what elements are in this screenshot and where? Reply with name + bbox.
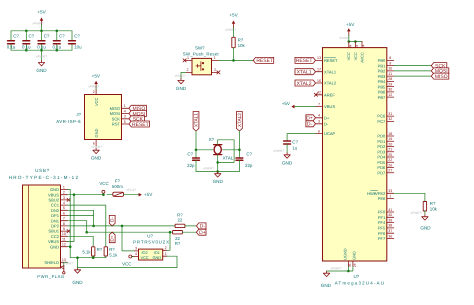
connector J1 AVR-ISP-6 body	[56, 95, 121, 140]
junction pin12 gnd	[69, 245, 72, 248]
pin 28 PB4 (MCU)	[378, 77, 394, 84]
ground (USB area)	[62, 262, 83, 285]
wire gnd bus down	[77, 258, 79, 268]
svg-text:R?: R?	[97, 247, 103, 252]
pin 19 PD1 (MCU)	[377, 137, 393, 144]
wire ESD gnd route	[78, 256, 178, 267]
wire GND pin12	[68, 246, 71, 248]
wire +5V to R1	[233, 28, 235, 38]
pin 11 VBUS (USB)	[48, 237, 68, 244]
svg-text:500m: 500m	[112, 184, 123, 189]
svg-text:11: 11	[62, 237, 66, 241]
wire HWB to R6	[394, 193, 425, 201]
pin 42 AREF (MCU, unconnected)	[314, 91, 335, 98]
svg-text:41: 41	[388, 208, 392, 212]
svg-text:37: 37	[388, 229, 392, 233]
pin 2 (switch, right, unconnected)	[212, 68, 221, 74]
svg-text:R?: R?	[430, 201, 436, 206]
svg-text:C?: C?	[13, 34, 19, 39]
pin 44 AVCC (MCU top)	[359, 42, 365, 63]
wire SCK (MCU)	[394, 65, 432, 67]
svg-text:1: 1	[165, 252, 167, 256]
pin 3 SBU2 (USB)	[48, 196, 67, 203]
switch SW1 SW_Push_Reset body	[183, 45, 220, 74]
pin 6 DP1 (USB)	[51, 211, 67, 218]
svg-text:1: 1	[389, 194, 391, 198]
junction VBUS branch	[73, 193, 76, 196]
pin 6 GND (ISP)	[93, 129, 99, 146]
svg-text:42: 42	[317, 91, 321, 95]
wire reset row	[219, 59, 254, 61]
svg-text:MISO: MISO	[435, 74, 448, 80]
pin 25 PD4 (MCU)	[377, 153, 393, 160]
pin 5 DN2 (USB)	[51, 206, 68, 213]
wire ESD IO1 drop	[169, 232, 171, 247]
pin 29 PB5 (MCU)	[378, 82, 394, 89]
ground (HWB)	[411, 211, 432, 231]
svg-text:PD4: PD4	[377, 155, 386, 160]
svg-text:30: 30	[388, 88, 392, 92]
svg-text:XTAL1: XTAL1	[194, 113, 199, 127]
global label MISO (ISP)	[129, 105, 147, 112]
wire ESD pin2 up	[167, 248, 170, 251]
pin 1 GND (USB)	[50, 185, 68, 192]
wire cap rail to GND	[41, 50, 43, 60]
svg-text:PD1: PD1	[377, 139, 386, 144]
junction crystal gnd	[216, 170, 219, 173]
svg-text:XTAL2: XTAL2	[324, 81, 337, 86]
svg-text:29: 29	[388, 82, 392, 86]
wire VBUS pin11 up	[68, 195, 75, 242]
global label D- (MCU)	[306, 121, 316, 128]
wire gnd bus	[70, 256, 106, 258]
pin 7 DN1 (USB)	[51, 217, 68, 224]
svg-text:VCC: VCC	[140, 255, 148, 260]
svg-text:3: 3	[63, 196, 65, 200]
svg-text:+5V: +5V	[282, 101, 291, 106]
svg-text:1: 1	[124, 104, 126, 108]
pin 33 HWB/PE2 (MCU)	[367, 189, 394, 196]
svg-text:SW?: SW?	[195, 45, 205, 50]
capacitor C2 0.1u	[22, 31, 35, 50]
pin 11 PB3 (MCU)	[378, 72, 394, 79]
pin 30 PB6 (MCU)	[378, 88, 394, 95]
svg-text:GND: GND	[152, 255, 161, 260]
pin 4 MOSI (ISP)	[110, 109, 129, 116]
svg-text:+5V: +5V	[346, 22, 355, 27]
pin 2 VCC (ISP)	[93, 90, 99, 107]
svg-text:#PWR?: #PWR?	[88, 85, 99, 89]
svg-text:D-: D-	[324, 121, 329, 126]
junction ESD IO1 tap	[169, 231, 172, 234]
svg-text:GND: GND	[282, 160, 293, 165]
svg-text:#PWR?: #PWR?	[175, 74, 186, 78]
svg-text:3: 3	[135, 247, 137, 251]
svg-text:8: 8	[63, 222, 65, 226]
svg-text:PF6: PF6	[378, 231, 386, 236]
pin 6 UCAP (MCU)	[316, 129, 336, 136]
global label D+ (to MCU)	[196, 229, 206, 236]
svg-text:20: 20	[388, 142, 392, 146]
pin 41 PF0 (MCU)	[378, 208, 394, 215]
pin 38 PF5 (MCU)	[378, 224, 394, 231]
global label MOSI (ISP)	[129, 111, 147, 118]
svg-text:D+: D+	[110, 235, 115, 241]
resistor R4 22 (D-)	[175, 213, 185, 228]
wire XTAL1 to crystal	[196, 149, 213, 151]
pin 37 PF6 (MCU)	[378, 229, 394, 236]
svg-text:C?: C?	[29, 34, 35, 39]
svg-text:2: 2	[214, 68, 216, 72]
svg-text:22: 22	[388, 158, 392, 162]
svg-text:PD5: PD5	[377, 160, 386, 165]
wire SHIELD to PWR_FLAG	[64, 262, 68, 267]
svg-text:#PWR?: #PWR?	[33, 22, 44, 26]
pin 3 IO2 (ESD)	[135, 247, 139, 251]
svg-text:PB2: PB2	[378, 69, 386, 74]
svg-text:PD3: PD3	[377, 149, 386, 154]
connector USB1 HRO-TYPE-C-31-M-12 body	[9, 168, 80, 268]
svg-text:1: 1	[187, 56, 189, 60]
unconnected SBU1	[67, 230, 70, 233]
global label RESET (ISP)	[129, 121, 150, 128]
svg-text:C?: C?	[74, 34, 80, 39]
resistor R3 5.1k (CC1)	[104, 247, 118, 258]
resistor R5 22 (D+)	[173, 231, 183, 247]
pin 2 VBUS (USB)	[48, 191, 68, 198]
wire D+ row	[87, 231, 173, 233]
wire CC2 to R2	[68, 236, 94, 247]
pin 2 (switch, left)	[186, 68, 192, 72]
svg-text:PWR_FLAG: PWR_FLAG	[37, 274, 64, 279]
pin 13 SHIELD (USB)	[44, 258, 67, 265]
svg-text:5.1k: 5.1k	[82, 249, 91, 254]
wire R1 to reset net	[233, 48, 235, 61]
wire UCAP to C8	[287, 134, 315, 141]
wire XTAL1 down	[195, 131, 197, 150]
wire cap bottom rail	[11, 49, 72, 51]
junction R2 gnd	[92, 256, 95, 259]
svg-text:10k: 10k	[238, 43, 246, 48]
svg-text:#FLG?: #FLG?	[126, 188, 136, 192]
svg-text:38: 38	[388, 224, 392, 228]
svg-text:9: 9	[389, 61, 391, 65]
crystal Y1 XTAL	[209, 137, 234, 161]
svg-text:PF1: PF1	[378, 215, 386, 220]
svg-text:XTAL1: XTAL1	[324, 69, 337, 74]
wire DP1 to D- row	[68, 216, 94, 226]
svg-text:GND: GND	[321, 283, 332, 288]
svg-text:GND: GND	[72, 280, 83, 285]
svg-text:PD6: PD6	[377, 165, 386, 170]
svg-text:36: 36	[388, 234, 392, 238]
svg-text:PD7: PD7	[377, 170, 386, 175]
power +5V (MCU VCC)	[339, 22, 355, 40]
global label MISO (MCU)	[431, 73, 449, 80]
global label RESET (switch)	[253, 57, 274, 64]
power +5V (reset pullup)	[225, 13, 239, 33]
svg-text:PE6: PE6	[378, 196, 386, 201]
pin 9 PB1 (MCU)	[378, 61, 394, 68]
svg-text:D-: D-	[307, 122, 313, 128]
svg-text:24: 24	[355, 44, 359, 48]
svg-text:5.1k: 5.1k	[109, 252, 118, 257]
pin 1 (switch, left, unconnected)	[183, 56, 192, 62]
wire MOSI (MCU)	[394, 70, 432, 72]
junction MCU gnd	[347, 270, 350, 273]
svg-text:12: 12	[62, 243, 66, 247]
power +5V (after fuse)	[126, 188, 153, 197]
svg-text:AVCC: AVCC	[359, 52, 364, 63]
svg-text:C?: C?	[187, 151, 193, 156]
power VCC (fuse)	[99, 181, 108, 194]
svg-text:#PWR?: #PWR?	[225, 28, 236, 32]
svg-text:PB0: PB0	[378, 58, 386, 63]
svg-text:#PWR?: #PWR?	[273, 149, 284, 153]
global label D+ (vertical up)	[109, 232, 115, 243]
pin 5 RST (ISP)	[112, 120, 129, 127]
svg-text:PB6: PB6	[378, 90, 386, 95]
svg-text:MOSI: MOSI	[110, 111, 120, 116]
pin 8 DP2 (USB)	[51, 222, 67, 229]
junction XTAL2 node	[238, 149, 241, 152]
svg-text:10u: 10u	[74, 45, 82, 50]
pin 16 XTAL2 (MCU)	[316, 79, 337, 86]
svg-text:PC6: PC6	[377, 114, 386, 119]
svg-text:2: 2	[165, 246, 167, 250]
svg-text:2: 2	[63, 191, 65, 195]
svg-text:R?: R?	[175, 241, 181, 246]
pin 8 PB0 (MCU)	[378, 56, 394, 63]
svg-text:+5V: +5V	[144, 192, 153, 197]
svg-text:PF5: PF5	[378, 226, 386, 231]
wire GND pin1 down	[68, 190, 71, 258]
ground (cap bank)	[36, 55, 47, 74]
wire switch pin2 to GND	[181, 72, 186, 78]
pin 12 GND (USB)	[50, 243, 68, 250]
svg-text:XTAL2: XTAL2	[297, 81, 312, 87]
svg-text:PF4: PF4	[378, 220, 386, 225]
wire cap top rail	[11, 30, 72, 32]
junction DP1 joins D-	[92, 225, 95, 228]
svg-text:6: 6	[318, 129, 320, 133]
svg-text:0.1u: 0.1u	[53, 45, 62, 50]
svg-text:39: 39	[388, 218, 392, 222]
power +5V (cap bank)	[33, 9, 47, 29]
svg-text:D-: D-	[110, 217, 115, 222]
svg-text:13: 13	[317, 56, 321, 60]
svg-text:5: 5	[63, 206, 65, 210]
pin 35 UGND (MCU bottom)	[343, 248, 353, 267]
capacitor C1 0.1u	[7, 31, 20, 50]
svg-text:+5V: +5V	[92, 73, 101, 78]
wire VBUS pin2 row	[68, 194, 104, 196]
svg-text:RESET: RESET	[296, 58, 313, 64]
pin 7 VBUS (MCU)	[316, 102, 336, 109]
svg-text:HRO-TYPE-C-31-M-12: HRO-TYPE-C-31-M-12	[9, 175, 80, 180]
wire CC1 to R3	[68, 205, 106, 247]
svg-text:1u: 1u	[292, 146, 297, 151]
svg-text:#PWR?: #PWR?	[36, 55, 47, 59]
svg-text:18: 18	[388, 132, 392, 136]
svg-text:GND: GND	[351, 251, 356, 260]
svg-text:4: 4	[135, 252, 137, 256]
svg-text:34: 34	[348, 44, 352, 48]
ground (ISP)	[91, 145, 102, 160]
svg-text:RESET: RESET	[324, 58, 338, 63]
svg-text:40: 40	[388, 213, 392, 217]
svg-text:GND: GND	[176, 86, 187, 91]
wire R4 to D- label	[185, 225, 197, 227]
svg-text:10: 10	[62, 232, 66, 236]
svg-text:PRTR5V0U2X: PRTR5V0U2X	[133, 239, 170, 244]
resistor R6 10k (HWB)	[423, 201, 437, 212]
junction ESD IO2 tap	[121, 225, 124, 228]
unconnected SBU2	[67, 198, 70, 201]
svg-text:19: 19	[388, 137, 392, 141]
svg-text:U?: U?	[354, 274, 360, 279]
svg-text:U?: U?	[147, 234, 153, 239]
svg-text:21: 21	[388, 148, 392, 152]
svg-text:4: 4	[63, 201, 65, 205]
pin 1 PE6 (MCU)	[378, 194, 394, 201]
svg-text:VCC: VCC	[122, 261, 131, 266]
wire +5V to VCC bar	[348, 35, 350, 41]
svg-text:GND: GND	[50, 244, 59, 249]
wire +5V to ISP VCC pin	[95, 88, 97, 90]
pin 1 (switch, right)	[212, 56, 219, 60]
global label XTAL2 (MCU)	[295, 80, 316, 87]
svg-text:0.1u: 0.1u	[7, 45, 16, 50]
pin 21 PD3 (MCU)	[377, 148, 393, 155]
svg-text:RESET: RESET	[256, 58, 273, 64]
svg-text:C?: C?	[44, 34, 50, 39]
svg-text:#PWR?: #PWR?	[62, 262, 73, 266]
global label D- (to MCU)	[196, 223, 206, 230]
global label XTAL1 (crystal)	[193, 112, 199, 132]
junction VCC stem	[102, 193, 105, 196]
junction DN1 joins D+	[85, 231, 88, 234]
svg-text:+5V: +5V	[37, 9, 46, 14]
wire MCU gnd	[327, 267, 353, 272]
pin 32 PC7 (MCU)	[377, 117, 393, 124]
svg-text:ATmega32U4-AU: ATmega32U4-AU	[335, 280, 386, 285]
svg-text:VCC: VCC	[99, 181, 108, 186]
svg-text:R?: R?	[238, 37, 244, 42]
svg-text:#PWR?: #PWR?	[91, 145, 102, 149]
svg-text:HWB/PE2: HWB/PE2	[367, 191, 386, 196]
wire DN2 to D- row	[68, 210, 94, 215]
svg-text:VCC: VCC	[94, 97, 99, 106]
svg-text:PD0: PD0	[377, 134, 386, 139]
svg-text:PF0: PF0	[378, 210, 386, 215]
ground (switch)	[175, 74, 187, 91]
power flag PWR_FLAG (shield)	[37, 266, 65, 279]
pin 40 PF1 (MCU)	[378, 213, 394, 220]
junction gnd bus	[76, 256, 79, 259]
resistor R1 10k (reset pullup)	[232, 37, 246, 48]
svg-text:27: 27	[388, 169, 392, 173]
global label D+ (MCU)	[306, 115, 316, 122]
capacitor C4 0.1u	[53, 31, 66, 50]
wire crystal gnd rail	[196, 171, 239, 173]
wire VCC bar	[349, 41, 362, 43]
pin 18 PD0 (MCU)	[377, 132, 393, 139]
pin 17 XTAL1 (MCU)	[316, 68, 337, 75]
ground (UCAP)	[273, 149, 293, 165]
pin 26 PD6 (MCU)	[377, 163, 393, 170]
svg-text:#PWR?: #PWR?	[331, 267, 342, 271]
pin 22 PD5 (MCU)	[377, 158, 393, 165]
svg-text:PB5: PB5	[378, 84, 386, 89]
junction VCC bar b	[354, 40, 357, 43]
fuse F1 500m	[107, 178, 124, 196]
svg-text:22p: 22p	[187, 163, 195, 168]
svg-text:PB3: PB3	[378, 74, 386, 79]
svg-text:5: 5	[124, 120, 126, 124]
svg-text:0.1u: 0.1u	[22, 45, 31, 50]
wire fuse to +5V	[124, 194, 139, 196]
svg-text:35: 35	[348, 263, 352, 267]
svg-text:PC7: PC7	[377, 119, 386, 124]
wire crystal to XTAL2	[223, 149, 240, 151]
svg-text:0.1u: 0.1u	[37, 45, 46, 50]
svg-text:PF7: PF7	[378, 236, 386, 241]
ground (crystal)	[203, 167, 223, 185]
MCU reference U?	[354, 274, 360, 279]
svg-text:16: 16	[317, 79, 321, 83]
pin 4 CC1 (USB)	[51, 201, 68, 208]
svg-text:R?: R?	[109, 247, 115, 252]
power VCC (ESD)	[122, 255, 133, 266]
svg-text:31: 31	[388, 112, 392, 116]
svg-text:22p: 22p	[245, 163, 253, 168]
svg-text:25: 25	[388, 153, 392, 157]
global label XTAL1 (MCU)	[295, 69, 316, 76]
svg-text:10k: 10k	[430, 207, 438, 212]
svg-text:J?: J?	[76, 112, 81, 117]
pin 23 GND (MCU bottom)	[351, 251, 357, 267]
svg-text:1: 1	[214, 56, 216, 60]
wire crystal bottom	[217, 155, 219, 172]
svg-text:32: 32	[388, 117, 392, 121]
svg-text:PB7: PB7	[378, 95, 386, 100]
global label XTAL2 (crystal)	[237, 112, 243, 132]
global label D- (vertical down)	[109, 215, 115, 226]
svg-text:PD2: PD2	[377, 144, 386, 149]
pin 12 PB7 (MCU)	[378, 93, 394, 100]
pin 3 SCK (ISP)	[112, 115, 129, 122]
capacitor C7 22p (right)	[236, 150, 253, 172]
svg-text:17: 17	[317, 68, 321, 72]
svg-text:GND: GND	[91, 156, 102, 161]
global label SCK (ISP)	[129, 116, 145, 123]
svg-text:UCAP: UCAP	[324, 131, 336, 136]
pin 4 D+ (MCU)	[316, 114, 330, 121]
svg-text:#PWR?: #PWR?	[203, 167, 214, 171]
svg-text:XTAL: XTAL	[223, 156, 234, 161]
svg-text:SHIELD: SHIELD	[44, 260, 59, 265]
wire DN1 to D+ row	[68, 221, 87, 233]
svg-text:RST: RST	[112, 122, 121, 127]
svg-text:8: 8	[389, 56, 391, 60]
svg-text:VCC: VCC	[353, 52, 358, 60]
pin 10 PB2 (MCU)	[378, 67, 394, 74]
ground (MCU)	[321, 267, 342, 289]
pin 34 VCC (MCU top)	[346, 42, 352, 61]
pin 27 PD7 (MCU)	[377, 169, 393, 176]
MCU value ATmega32U4-AU	[335, 280, 386, 285]
